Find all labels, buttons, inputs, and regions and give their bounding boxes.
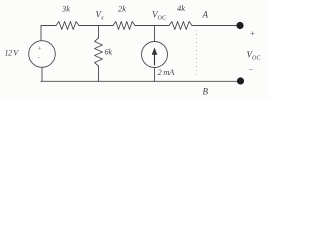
svg-text:A: A xyxy=(202,10,209,20)
svg-text:4k: 4k xyxy=(177,3,185,13)
node A terminal dot xyxy=(236,22,243,29)
wire 6k bottom stub xyxy=(98,66,100,81)
wire source bottom to rail xyxy=(41,67,42,81)
current source I1 circle xyxy=(142,42,168,68)
wire 4k to terminal A xyxy=(192,25,238,27)
svg-text:-: - xyxy=(38,55,40,61)
node B terminal dot xyxy=(237,77,244,84)
svg-text:−: − xyxy=(248,66,253,75)
resistor R 2k xyxy=(113,22,135,30)
current source arrow xyxy=(152,48,158,66)
wire current source top stub xyxy=(154,26,156,42)
resistor R 3k xyxy=(56,22,79,30)
svg-text:3k: 3k xyxy=(61,4,70,14)
wire 2k to 4k through node Voc xyxy=(135,25,169,27)
dashed line A-B xyxy=(196,30,198,78)
wire bottom rail xyxy=(41,80,238,82)
wire current source bottom stub xyxy=(154,68,156,82)
svg-text:Vx: Vx xyxy=(96,9,105,21)
svg-text:+: + xyxy=(250,28,256,38)
wire node Vx down stub xyxy=(98,26,100,39)
svg-text:2 mA: 2 mA xyxy=(158,67,176,77)
svg-text:+: + xyxy=(38,47,42,53)
svg-text:B: B xyxy=(203,87,209,97)
svg-text:VOC: VOC xyxy=(247,50,262,62)
svg-text:VOC: VOC xyxy=(152,9,167,21)
wire top-left segment xyxy=(41,26,56,41)
svg-text:12 V: 12 V xyxy=(5,49,20,58)
resistor R 6k xyxy=(95,38,103,66)
svg-text:2k: 2k xyxy=(118,4,126,14)
svg-text:6k: 6k xyxy=(105,48,113,57)
voltage source V1 12V circle xyxy=(29,41,56,68)
wire 3k to 2k through node Vx xyxy=(79,25,113,27)
resistor R 4k xyxy=(169,22,192,30)
